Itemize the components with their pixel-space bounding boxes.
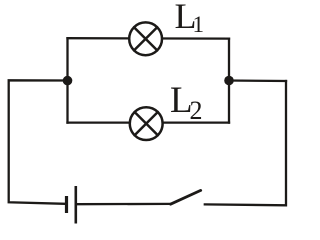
svg-text:1: 1 — [193, 12, 205, 37]
svg-text:2: 2 — [190, 96, 203, 125]
